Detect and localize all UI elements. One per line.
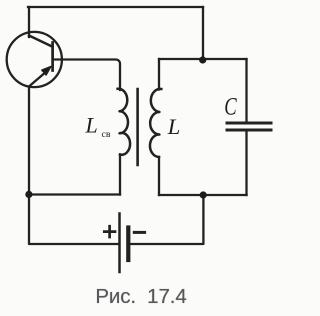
node junction bottom-right [200,191,207,198]
transformer core [136,89,139,165]
wire tank loop left bottom [158,157,160,195]
svg-text:C: C [224,92,237,121]
node junction bottom-left [25,191,32,198]
capacitor C plates [227,123,271,130]
inductor Lsv (coupling coil) [118,89,130,155]
svg-text:св: св [102,129,111,140]
inductor L (tank coil) [150,89,161,157]
label Lsv [85,92,238,140]
wire capacitor upper lead [245,59,247,121]
wire collector drop [28,7,30,37]
wire tank loop top [159,58,247,60]
caption Рис. 17.4 [3,285,279,309]
svg-text:L: L [85,113,98,138]
node junction top [199,56,206,63]
wire top horizontal [28,6,203,8]
transistor Q1 [7,32,62,87]
wire Lsv bottom lead [119,155,121,195]
wire emitter down-left to battery [29,87,118,245]
svg-text:L: L [167,114,181,139]
battery B1 [104,214,144,273]
wire right drop to battery [129,195,203,244]
wire top-right drop to tank [202,7,204,59]
wire tank loop bottom [159,194,247,196]
wire left loop bottom [29,193,120,195]
wire base lead [54,60,120,91]
wire capacitor lower lead [245,132,247,195]
wire tank loop left top [158,59,160,90]
